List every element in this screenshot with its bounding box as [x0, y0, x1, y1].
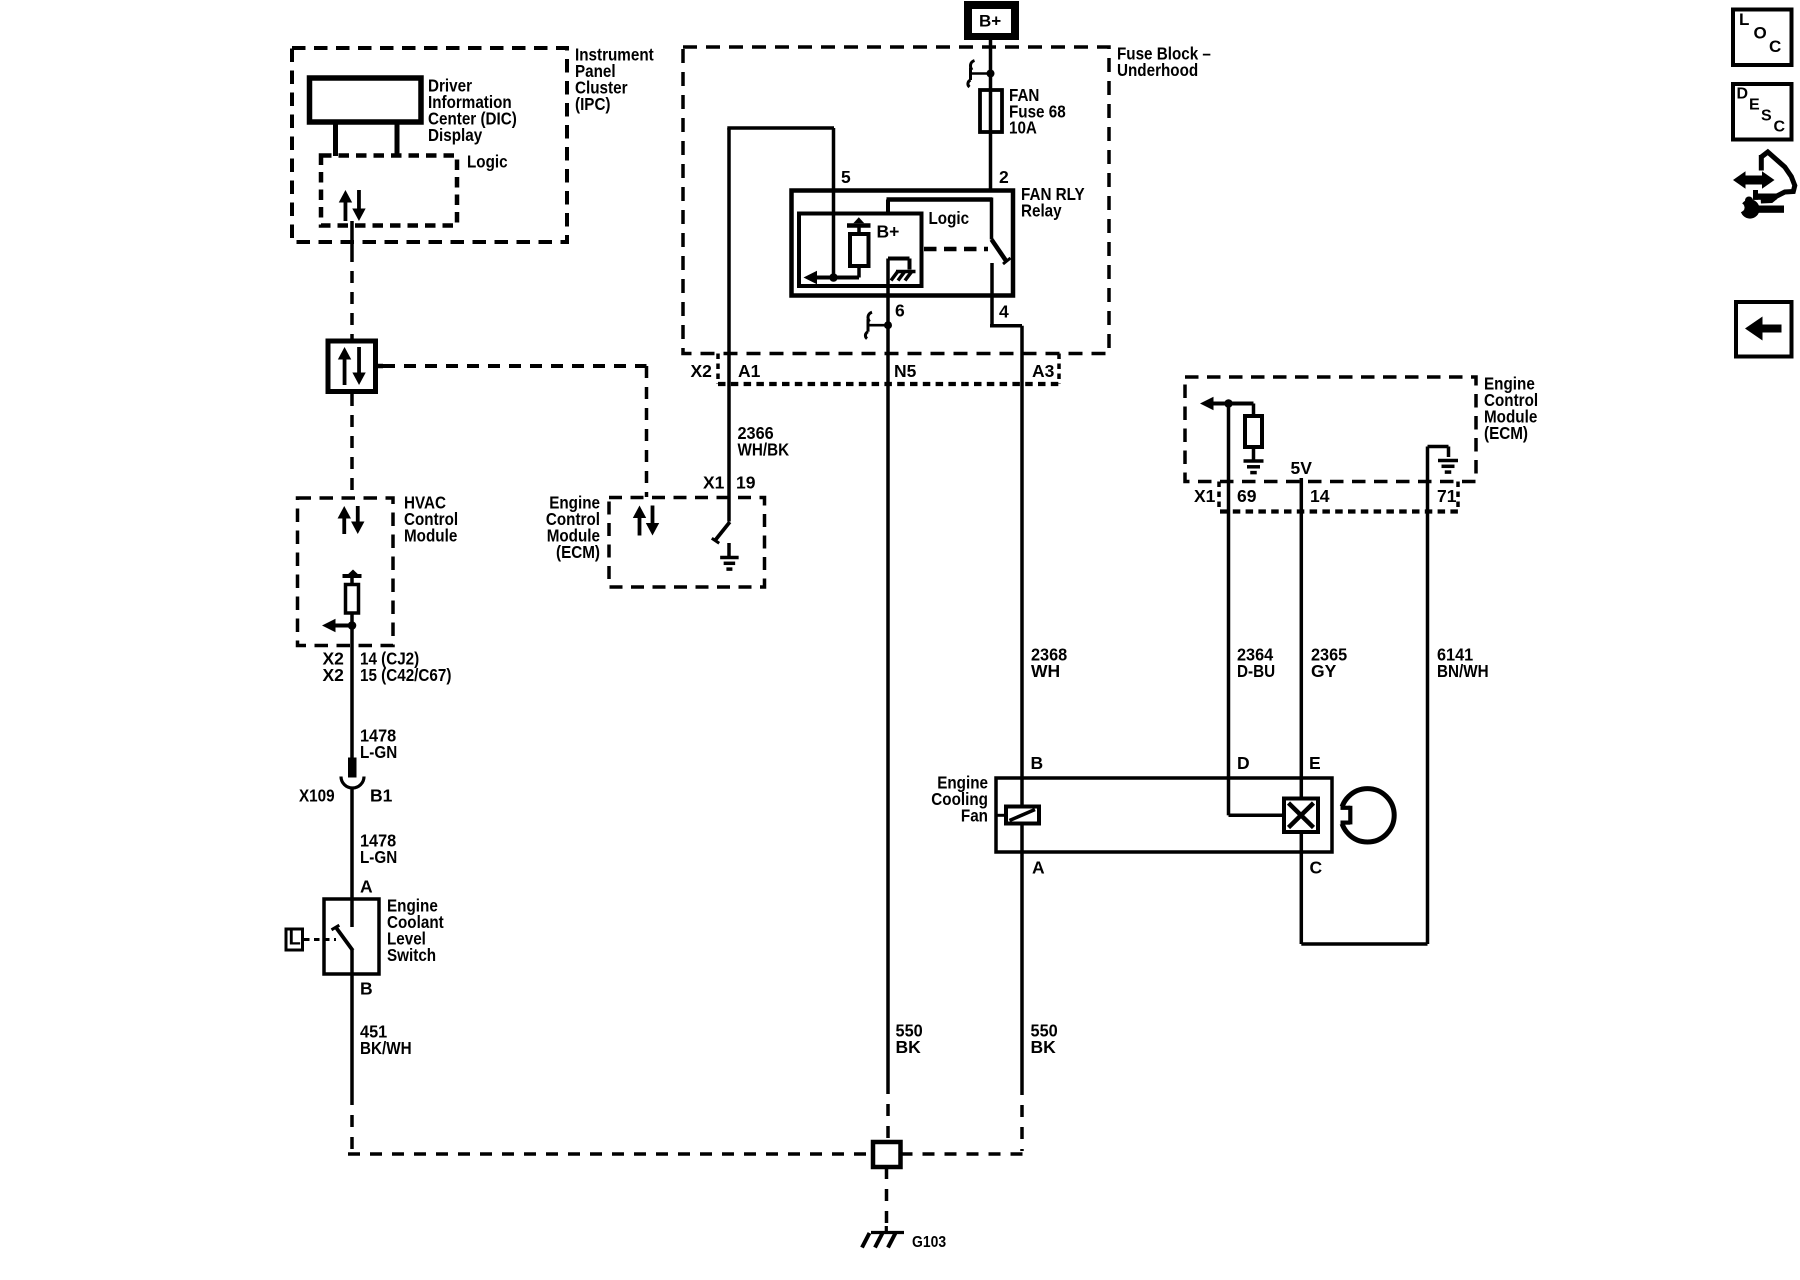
svg-text:A1: A1 — [738, 361, 761, 381]
svg-text:C: C — [1310, 858, 1323, 878]
svg-text:Switch: Switch — [387, 945, 436, 965]
svg-text:E: E — [1749, 97, 1760, 114]
svg-text:BK: BK — [896, 1037, 922, 1057]
svg-text:B: B — [360, 979, 373, 999]
svg-text:(ECM): (ECM) — [1484, 423, 1528, 443]
svg-text:WH/BK: WH/BK — [738, 440, 790, 460]
svg-text:BK/WH: BK/WH — [360, 1038, 412, 1058]
svg-text:69: 69 — [1237, 486, 1257, 506]
svg-text:B1: B1 — [370, 786, 393, 806]
svg-text:5: 5 — [841, 167, 851, 187]
svg-text:BN/WH: BN/WH — [1437, 661, 1489, 681]
svg-text:BK: BK — [1031, 1037, 1057, 1057]
svg-text:19: 19 — [736, 473, 756, 493]
svg-text:B+: B+ — [877, 222, 900, 242]
svg-text:D: D — [1737, 86, 1749, 103]
svg-text:L-GN: L-GN — [360, 742, 397, 762]
svg-text:WH: WH — [1031, 661, 1060, 681]
svg-text:C: C — [1769, 37, 1781, 56]
svg-text:A: A — [1032, 858, 1045, 878]
svg-text:GY: GY — [1311, 661, 1337, 681]
svg-text:G103: G103 — [912, 1234, 946, 1251]
svg-text:5V: 5V — [1291, 458, 1313, 478]
svg-text:A3: A3 — [1032, 361, 1055, 381]
svg-text:C: C — [1774, 119, 1786, 136]
svg-text:(ECM): (ECM) — [556, 542, 600, 562]
svg-text:2: 2 — [999, 167, 1009, 187]
svg-text:(IPC): (IPC) — [575, 94, 611, 114]
svg-text:O: O — [1754, 24, 1767, 43]
svg-text:L: L — [289, 927, 301, 949]
svg-text:Module: Module — [404, 526, 458, 546]
svg-text:D-BU: D-BU — [1237, 661, 1275, 681]
svg-text:Underhood: Underhood — [1117, 60, 1198, 80]
svg-text:X109: X109 — [299, 786, 335, 806]
svg-text:B+: B+ — [979, 12, 1001, 31]
svg-text:14: 14 — [1310, 486, 1330, 506]
svg-text:S: S — [1761, 108, 1772, 125]
svg-text:6: 6 — [895, 301, 905, 321]
svg-text:Relay: Relay — [1021, 201, 1062, 221]
svg-text:X2: X2 — [691, 361, 713, 381]
svg-text:D: D — [1237, 753, 1250, 773]
svg-text:Logic: Logic — [467, 152, 508, 172]
svg-text:L: L — [1739, 10, 1749, 29]
svg-text:N5: N5 — [894, 361, 917, 381]
svg-text:B: B — [1031, 753, 1044, 773]
svg-text:Display: Display — [428, 125, 482, 145]
svg-text:X2: X2 — [323, 665, 345, 685]
svg-text:4: 4 — [999, 302, 1009, 322]
svg-text:Logic: Logic — [929, 208, 970, 228]
svg-text:71: 71 — [1437, 486, 1457, 506]
svg-text:15 (C42/C67): 15 (C42/C67) — [360, 665, 451, 685]
svg-text:X1: X1 — [1194, 486, 1216, 506]
svg-text:X1: X1 — [703, 473, 725, 493]
svg-text:A: A — [360, 877, 373, 897]
svg-text:Fan: Fan — [961, 806, 988, 826]
svg-text:E: E — [1309, 753, 1321, 773]
svg-text:10A: 10A — [1009, 118, 1037, 138]
svg-text:L-GN: L-GN — [360, 847, 397, 867]
